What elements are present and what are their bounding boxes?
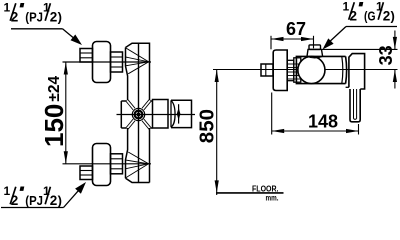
svg-text:148: 148 xyxy=(308,112,338,132)
valve horizontal centerline (front view) xyxy=(117,114,196,116)
label PJ bottom-left text xyxy=(4,184,62,208)
svg-text:67: 67 xyxy=(286,19,306,39)
shower outlet cap xyxy=(309,45,321,50)
bottom flange escutcheon xyxy=(93,144,111,186)
svg-text:2: 2 xyxy=(50,193,58,208)
centerline top inlet (front view) xyxy=(63,61,152,63)
svg-text:FLOOR.: FLOOR. xyxy=(252,184,279,194)
centerline bottom inlet (front view) xyxy=(63,163,152,165)
svg-text:2: 2 xyxy=(50,10,58,25)
dimension 150 top arrow xyxy=(64,62,68,75)
bottom union nut xyxy=(111,154,123,174)
side view centerline xyxy=(213,69,398,71)
svg-text:(PJ: (PJ xyxy=(25,193,43,208)
top eccentric nipple xyxy=(80,49,93,63)
dimension 150 bottom arrow xyxy=(64,151,68,164)
shower outlet G1/2 base xyxy=(307,49,323,58)
label G top-right text xyxy=(343,0,395,24)
svg-text:33: 33 xyxy=(376,45,396,65)
top elbow cone fan lines xyxy=(126,48,149,74)
svg-text:1: 1 xyxy=(4,1,11,15)
cartridge housing divider line xyxy=(170,100,172,127)
side view collar nut xyxy=(294,58,301,82)
svg-text:850: 850 xyxy=(195,109,218,143)
cartridge housing front (left section) xyxy=(153,100,169,129)
handle lever bar xyxy=(350,89,360,122)
bottom elbow cone fan lines xyxy=(126,152,149,178)
cartridge housing front (right section) xyxy=(171,100,192,127)
vertical centerline riser pipe xyxy=(138,43,140,182)
handle pin vertical line xyxy=(178,104,180,123)
label PJ bottom-left leader xyxy=(1,182,86,208)
svg-text:1: 1 xyxy=(4,184,11,198)
side view valve dome circle xyxy=(298,56,325,83)
label G top-right leader xyxy=(323,27,398,50)
svg-text:2: 2 xyxy=(11,10,19,25)
cartridge housing arc xyxy=(171,101,175,127)
dimension 33 xyxy=(322,31,398,89)
top union nut xyxy=(111,52,123,72)
side view wall plate xyxy=(273,50,287,91)
top elbow body xyxy=(126,43,150,101)
riser pipe right wall xyxy=(149,128,151,183)
svg-text:): ) xyxy=(58,10,62,25)
svg-text:mm.: mm. xyxy=(266,193,279,202)
side view valve body xyxy=(296,56,346,83)
bottom elbow body xyxy=(126,128,150,183)
svg-text:1: 1 xyxy=(343,0,350,14)
side view thread ribs xyxy=(287,64,301,79)
outlet port circles xyxy=(132,108,144,120)
dimension 150 line xyxy=(65,62,67,164)
cross chamfer double lines xyxy=(127,101,150,129)
dimension 850 xyxy=(195,70,219,196)
handle root xyxy=(346,54,365,89)
label PJ top-left text xyxy=(4,1,62,25)
svg-text:2: 2 xyxy=(11,193,19,208)
label PJ top-left leader xyxy=(11,29,82,45)
handle pin diamond xyxy=(177,108,181,121)
valve cross body xyxy=(121,101,152,128)
floor line xyxy=(216,192,284,194)
svg-text:2: 2 xyxy=(350,9,358,24)
svg-text:): ) xyxy=(58,193,62,208)
svg-text:): ) xyxy=(391,9,395,24)
svg-text:2: 2 xyxy=(383,9,391,24)
bottom eccentric nipple xyxy=(80,166,93,180)
dimension 148 xyxy=(272,93,359,135)
side view threaded neck xyxy=(287,60,294,80)
top flange escutcheon xyxy=(93,42,111,83)
svg-text:(G: (G xyxy=(364,9,376,24)
side view wall nut xyxy=(261,64,273,76)
svg-text:(PJ: (PJ xyxy=(25,10,43,25)
dimension 67 xyxy=(271,19,314,49)
